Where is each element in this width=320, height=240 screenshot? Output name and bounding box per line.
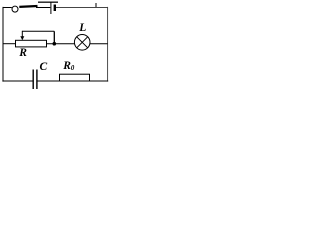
battery long plate (50, 2, 52, 14)
lamp L circle (74, 35, 90, 51)
svg-text:R0: R0 (62, 60, 75, 72)
junction dot (53, 42, 57, 46)
node tick top-right (95, 3, 97, 8)
wire lamp to right border (90, 43, 108, 45)
bottom wire right of capacitor (38, 80, 109, 82)
svg-text:L: L (78, 22, 86, 34)
resistor R0 box (60, 74, 90, 81)
wire battery to top-right corner (56, 7, 108, 9)
wire R box to lamp (47, 43, 75, 45)
bottom wire left of capacitor (2, 80, 32, 82)
wire top-left from corner to switch (3, 7, 12, 9)
wire left-border to R box (3, 43, 16, 45)
rheostat slider arrowhead (20, 36, 24, 40)
capacitor right plate (36, 70, 38, 90)
rheostat slider tap wire (22, 30, 54, 32)
wire switch to battery (36, 7, 50, 9)
svg-text:C: C (40, 61, 48, 73)
vertical wire from battery down to junction (53, 31, 55, 43)
switch blade (19, 5, 37, 8)
svg-text:R: R (18, 47, 27, 59)
switch S pivot circle (12, 6, 18, 12)
battery short thick plate (54, 5, 56, 12)
right border wire (107, 7, 109, 82)
rheostat slider arrow shaft (21, 31, 23, 38)
artifact bar above battery (38, 1, 58, 3)
lamp X cross (77, 37, 88, 48)
left border wire (2, 7, 4, 82)
capacitor left plate (32, 70, 34, 90)
rheostat R box (16, 40, 47, 47)
